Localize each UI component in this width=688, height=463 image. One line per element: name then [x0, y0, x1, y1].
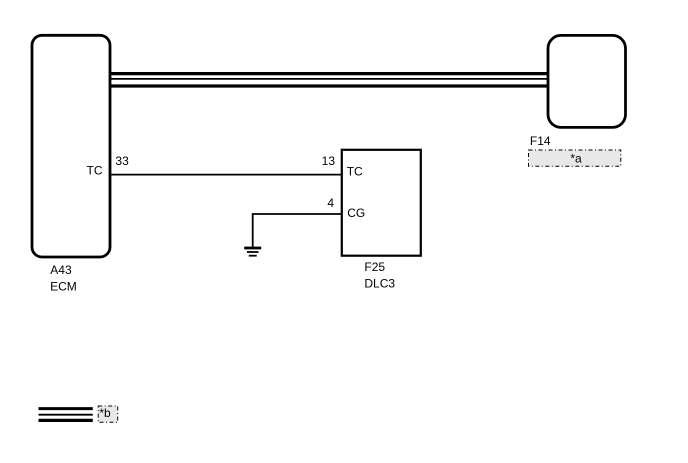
svg-text:DLC3: DLC3 — [364, 277, 395, 291]
svg-text:F14: F14 — [530, 134, 551, 148]
svg-text:33: 33 — [115, 154, 129, 168]
svg-text:F25: F25 — [364, 260, 385, 274]
svg-text:ECM: ECM — [50, 279, 77, 293]
svg-text:*a: *a — [570, 151, 582, 165]
svg-text:TC: TC — [347, 165, 363, 179]
svg-text:CG: CG — [347, 206, 365, 220]
svg-text:*b: *b — [99, 406, 111, 420]
svg-text:4: 4 — [327, 196, 334, 210]
svg-text:A43: A43 — [50, 263, 72, 277]
svg-text:13: 13 — [322, 154, 336, 168]
svg-text:TC: TC — [87, 164, 103, 178]
